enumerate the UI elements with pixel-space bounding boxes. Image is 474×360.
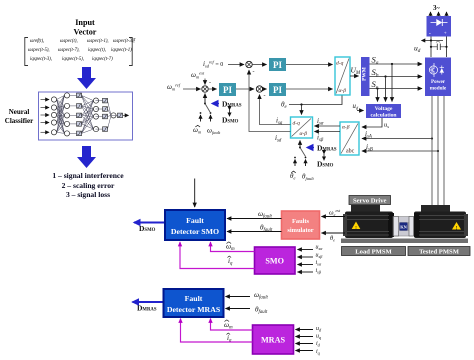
svg-text:-: -: [209, 80, 211, 86]
classifier output legend: [52, 171, 124, 199]
svg-text:θe: θe: [330, 235, 335, 243]
neural network hidden connections: [57, 95, 111, 133]
svg-text:DMRAS: DMRAS: [317, 144, 337, 153]
svg-text:ωm: ωm: [224, 321, 233, 331]
wire i_q MRAS to detector: [181, 319, 253, 343]
label D_SMO theta switch with updown arrow: [317, 154, 334, 169]
svg-text:1 – signal interference: 1 – signal interference: [52, 171, 124, 180]
svg-text:ud: ud: [414, 44, 421, 55]
wire S_c tap to voltage calculation: [377, 89, 379, 102]
svg-text:Faults: Faults: [292, 218, 310, 225]
svg-text:Power: Power: [431, 79, 446, 85]
svg-text:iq: iq: [316, 349, 321, 356]
svg-text:usβ: usβ: [316, 253, 324, 260]
label D_SMO omega switch with updown arrow: [222, 110, 239, 125]
svg-text:iqspec(t-5),: iqspec(t-5),: [62, 57, 84, 62]
coupling between motors: [393, 217, 414, 237]
dq to alpha-beta voltage transform box: [335, 57, 350, 95]
wire S_b tap to voltage calculation: [385, 77, 387, 102]
neural network classifier box: [39, 92, 133, 140]
wire i_sd feedback to sum3: [249, 70, 291, 131]
svg-text:3 – signal loss: 3 – signal loss: [66, 190, 110, 199]
svg-text:iqspec(t),: iqspec(t),: [88, 48, 106, 53]
wire u_s from voltage calculation to ab-abc box: [362, 118, 382, 127]
wire isd_ref to sum3: [228, 64, 244, 66]
svg-text:Servo Drive: Servo Drive: [353, 198, 387, 205]
wire u_d into voltage calculation: [357, 110, 364, 112]
svg-text:α-β: α-β: [339, 88, 347, 94]
junction S_b tap: [384, 75, 386, 77]
svg-text:usα: usα: [316, 245, 324, 252]
wire i_q SMO to detector: [180, 242, 255, 269]
node i_q SMO label: [228, 256, 234, 267]
wire phase C to motor: [443, 96, 445, 208]
big blue arrow to legend: [77, 146, 96, 168]
wire DC bus right: [446, 37, 448, 58]
junction i_sB tap: [437, 150, 439, 152]
svg-text:isα: isα: [316, 260, 322, 267]
svg-text:ωmest: ωmest: [191, 71, 205, 80]
svg-text:ωspec(t-7),: ωspec(t-7),: [58, 48, 80, 53]
wire omega_fault to MRAS detector: [226, 296, 251, 298]
wire omega_fault to SMO detector: [227, 218, 282, 220]
title Input Vector: [74, 18, 97, 37]
alpha-beta to abc transform box: [340, 122, 359, 155]
svg-text:θfault: θfault: [302, 173, 314, 182]
input vector matrix: [28, 39, 135, 62]
node omega_fault contact: [210, 112, 212, 121]
fault detector SMO block: [165, 210, 225, 240]
wire D_SMO output: [134, 222, 164, 224]
PWM block: [361, 57, 370, 96]
switch theta select: [299, 147, 306, 157]
load PMSM motor: [343, 205, 394, 238]
faults simulator block: [282, 211, 320, 239]
load PMSM label: [342, 247, 406, 256]
wire i_sA from phase wire to ab-abc box: [362, 138, 432, 140]
wire i_s_beta into SMO: [298, 271, 314, 273]
svg-text:DSMO: DSMO: [222, 116, 239, 125]
wire DC bus left: [430, 37, 432, 58]
neural network input layer nodes: [51, 97, 56, 135]
wire i_d into MRAS: [296, 343, 314, 345]
svg-text:ud: ud: [353, 103, 359, 111]
wire theta switch to dq current box: [299, 141, 301, 148]
svg-text:isβ: isβ: [317, 134, 324, 144]
svg-text:Detector SMO: Detector SMO: [171, 227, 219, 236]
switch omega select: [204, 103, 210, 113]
wire PI1 to sum2: [236, 88, 254, 90]
test bench base: [341, 239, 468, 244]
wire u_s_beta into SMO: [298, 256, 314, 258]
wire theta_fault to SMO detector: [227, 231, 282, 233]
svg-text:Fault: Fault: [186, 216, 204, 225]
svg-text:DSMO: DSMO: [139, 224, 156, 233]
wire i_sB from phase wire to ab-abc box: [362, 150, 438, 152]
svg-text:3~: 3~: [433, 4, 441, 12]
svg-text:PWM: PWM: [362, 67, 368, 81]
svg-text:Load PMSM: Load PMSM: [355, 249, 392, 256]
wire classifier decision into SMO detector: [194, 179, 196, 208]
svg-text:ωref(t),: ωref(t),: [30, 39, 44, 44]
svg-text:Vector: Vector: [74, 28, 97, 37]
svg-text:PI: PI: [273, 85, 282, 95]
neural network input arrows: [41, 100, 50, 133]
svg-text:isβ: isβ: [316, 268, 322, 275]
node theta_fault contact: [305, 157, 307, 166]
svg-text:KN: KN: [400, 225, 407, 230]
svg-text:ud: ud: [316, 326, 322, 333]
svg-text:uq: uq: [316, 334, 322, 341]
svg-text:DMRAS: DMRAS: [137, 304, 157, 313]
summing junction sum1: [202, 86, 208, 92]
wire phase B to motor: [437, 96, 439, 208]
power module block: [425, 58, 451, 97]
wire i_s_alpha ab-abc to dq current box: [315, 125, 341, 127]
node omega_m_est MRAS label: [224, 320, 233, 331]
node i_q MRAS label: [227, 333, 233, 344]
wire S_c to power module: [370, 88, 423, 90]
svg-text:us: us: [384, 122, 389, 130]
neural network hidden layer 2 nodes: [93, 98, 107, 132]
junction i_sA tap: [431, 137, 433, 139]
svg-text:calculation: calculation: [370, 113, 397, 119]
tested PMSM label: [408, 247, 470, 256]
summing junction sum3 d-axis: [246, 61, 255, 75]
node omega_m_est contact: [200, 112, 202, 121]
wire PI3 to dq-ab voltage box: [286, 64, 333, 66]
svg-text:ωspec(t),: ωspec(t),: [60, 39, 78, 44]
wire u_s_alpha into SMO: [298, 249, 314, 251]
wire PI2 to dq-ab voltage box: [286, 88, 333, 90]
svg-text:module: module: [430, 86, 447, 92]
junction S_a tap: [391, 63, 393, 65]
svg-text:-: -: [429, 30, 431, 37]
svg-text:isα: isα: [317, 117, 324, 127]
svg-text:UM: UM: [351, 66, 361, 77]
wire D_MRAS output: [133, 301, 163, 303]
svg-text:ωspec(t-3),: ωspec(t-3),: [113, 39, 135, 44]
rectifier block: [427, 16, 452, 37]
svg-text:d-q: d-q: [336, 61, 344, 67]
svg-text:ωfault: ωfault: [207, 127, 221, 136]
svg-text:iqspec(t-7): iqspec(t-7): [92, 57, 113, 62]
node theta_e_est contact: [294, 157, 296, 166]
svg-text:iqspec(t-1): iqspec(t-1): [111, 48, 132, 53]
svg-text:θe: θe: [281, 101, 288, 111]
wire S_a tap to voltage calculation: [391, 64, 393, 102]
svg-text:Fault: Fault: [185, 294, 203, 303]
wire i_q into MRAS: [296, 350, 314, 352]
svg-text:DSMO: DSMO: [317, 160, 334, 169]
wire omega switch to sum1: [204, 94, 206, 103]
tested PMSM motor: [414, 205, 468, 238]
svg-text:-: -: [253, 69, 255, 75]
svg-text:iq: iq: [228, 257, 233, 267]
svg-text:ωmref: ωmref: [167, 83, 181, 92]
fault detector MRAS block: [164, 289, 224, 317]
svg-text:α-β: α-β: [342, 125, 350, 131]
svg-text:Tested PMSM: Tested PMSM: [419, 249, 460, 256]
svg-text:T: T: [133, 37, 136, 42]
wire phase A to motor: [431, 96, 433, 208]
neural network hidden layer 1 nodes: [64, 93, 81, 136]
wire u_q into MRAS: [296, 336, 314, 338]
junction theta_e tap: [300, 103, 302, 105]
node u_d measurement arrow: [422, 39, 444, 42]
wire D_MRAS select arrow omega: [212, 103, 219, 105]
wire sum3 to PI3: [252, 64, 266, 66]
wire S_a to power module: [370, 63, 423, 65]
svg-text:ωfault: ωfault: [254, 291, 269, 301]
PI controller speed: [219, 83, 236, 96]
svg-text:2 – scaling error: 2 – scaling error: [62, 181, 115, 190]
svg-text:θfault: θfault: [255, 306, 268, 316]
big blue arrow to classifier: [77, 67, 96, 89]
voltage calculation block: [366, 104, 401, 119]
wire omega_ref to sum1: [183, 88, 201, 90]
wire sum2 to PI2: [263, 88, 267, 90]
wire dq-ab to PWM: [350, 75, 359, 77]
svg-text:ωspec(t-1),: ωspec(t-1),: [87, 39, 109, 44]
svg-text:isd: isd: [275, 134, 282, 144]
wire omega_m_est MRAS to detector: [211, 319, 253, 331]
svg-text:simulator: simulator: [287, 227, 313, 234]
SMO estimator block: [255, 247, 296, 274]
capacitor DC link: [430, 44, 448, 50]
svg-text:Input: Input: [75, 18, 95, 27]
svg-text:ωm: ωm: [226, 243, 235, 253]
svg-text:abc: abc: [346, 149, 355, 155]
wire theta_fault to MRAS detector: [226, 308, 251, 310]
wire D_MRAS select arrow theta: [307, 147, 314, 149]
wire theta_e line: [289, 96, 342, 105]
neural classifier label: [5, 108, 33, 125]
svg-text:DMRAS: DMRAS: [222, 100, 242, 109]
svg-text:-: -: [264, 93, 266, 99]
MRAS estimator block: [253, 325, 294, 354]
svg-text:ωcest: ωcest: [329, 208, 341, 217]
wire i_s_beta ab-abc to dq current box: [315, 131, 341, 133]
wire supply pins: [431, 12, 447, 16]
svg-text:Classifier: Classifier: [5, 117, 33, 125]
wire u_d into MRAS: [296, 329, 314, 331]
wire omega_est down to sum1: [204, 79, 206, 85]
wire S_b to power module: [370, 76, 423, 78]
wire theta from motor to fault simulator: [322, 232, 346, 234]
PI controller q current: [269, 83, 286, 96]
svg-text:θe: θe: [290, 172, 295, 181]
PI controller d current: [269, 58, 286, 71]
svg-text:+: +: [444, 31, 447, 37]
svg-text:id: id: [316, 341, 321, 348]
svg-text:iqspec(t-3),: iqspec(t-3),: [30, 57, 52, 62]
svg-text:ωm: ωm: [193, 126, 202, 135]
wire theta_e down into dq current box: [301, 105, 303, 115]
svg-text:isdref = 0: isdref = 0: [203, 60, 223, 69]
wire sum1 to PI1: [208, 88, 216, 90]
wire omega_m_est SMO to detector: [211, 242, 255, 252]
junction S_c tap: [376, 87, 378, 89]
wire i_s_alpha into SMO: [298, 264, 314, 266]
neural network output node: [111, 113, 129, 118]
svg-text:Voltage: Voltage: [375, 106, 393, 112]
svg-text:MRAS: MRAS: [261, 336, 286, 345]
svg-text:d-q: d-q: [293, 121, 301, 127]
wire i_sq feedback to sum2: [260, 95, 291, 125]
servo drive label: [349, 196, 391, 205]
svg-text:Detector MRAS: Detector MRAS: [167, 305, 220, 314]
summing junction sum2 q-axis: [256, 86, 265, 99]
svg-text:SMO: SMO: [265, 257, 284, 266]
svg-text:ωspec(t-5),: ωspec(t-5),: [28, 48, 50, 53]
svg-text:Neural: Neural: [9, 108, 30, 116]
svg-text:α-β: α-β: [300, 131, 308, 137]
svg-text:PI: PI: [273, 60, 282, 70]
svg-text:PI: PI: [223, 85, 232, 95]
wire omega from motor to fault simulator: [322, 216, 346, 218]
ab to dq current transform box: [291, 117, 313, 138]
